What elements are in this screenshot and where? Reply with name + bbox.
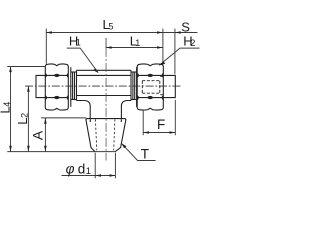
leader T: [122, 144, 156, 161]
nut N1 (left): [45, 64, 68, 110]
svg-text:S: S: [181, 19, 190, 34]
right tube stub: [163, 75, 175, 97]
svg-text:T: T: [141, 146, 149, 161]
svg-text:d: d: [78, 162, 86, 177]
dimension A line: [44, 118, 46, 152]
leader H2: [159, 48, 199, 65]
dimension F line: [143, 132, 175, 134]
nut N2 (right): [137, 64, 163, 110]
centerline horizontal: [25, 85, 181, 87]
extension lines top: [45, 29, 47, 64]
svg-text:F: F: [157, 117, 165, 132]
H2 leader arrow: [159, 61, 165, 65]
body B1 (tee center): [77, 70, 132, 118]
centerline vertical (branch axis): [105, 38, 107, 48]
L1 arrows: [106, 46, 112, 49]
arrowheads: [9, 31, 181, 177]
dimension L4 line: [10, 66, 12, 151]
svg-text:2: 2: [20, 113, 30, 118]
svg-text:4: 4: [2, 102, 12, 107]
phi d1 arrows: [95, 174, 101, 177]
hidden tube inside nut N2 (dashed): [142, 76, 163, 94]
svg-text:5: 5: [108, 21, 113, 31]
washer W2 (right): [131, 67, 137, 107]
thread crest ticks: [89, 119, 91, 122]
H1 leader arrow: [93, 68, 98, 73]
F arrows: [143, 131, 149, 134]
bottom reference line: [7, 151, 115, 153]
svg-text:1: 1: [135, 38, 140, 48]
L5 arrows: [46, 31, 52, 34]
dimension L2 line: [27, 86, 29, 152]
L4 arrows: [9, 66, 12, 72]
A arrows: [44, 118, 47, 124]
svg-text:A: A: [30, 130, 46, 140]
svg-text:1: 1: [76, 38, 81, 48]
thread (male, bottom branch): [86, 119, 126, 152]
dimension L5 line: [46, 32, 198, 34]
L2 arrows: [27, 86, 30, 92]
left tube stub: [36, 75, 45, 97]
thread root lines (dashed): [95, 119, 115, 150]
svg-text:φ: φ: [66, 162, 75, 177]
T leader arrow: [121, 143, 126, 148]
washer W1 (left): [71, 67, 77, 107]
dimension phi d1: [62, 175, 116, 177]
S outside arrow: [175, 31, 181, 34]
svg-text:1: 1: [86, 166, 91, 177]
leader H1: [67, 48, 98, 72]
svg-text:2: 2: [190, 38, 195, 48]
dimension L1 line: [106, 47, 163, 49]
